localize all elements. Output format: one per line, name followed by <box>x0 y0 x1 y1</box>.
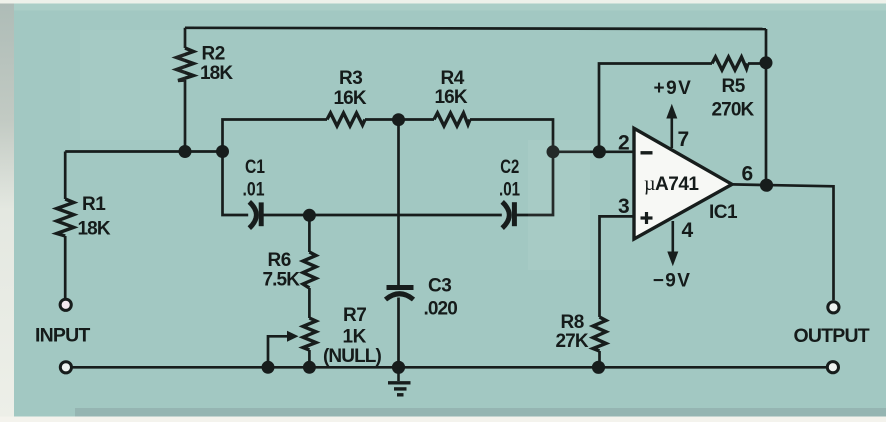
wire R6-R7 link <box>308 288 311 318</box>
svg-text:OUTPUT: OUTPUT <box>794 325 870 347</box>
svg-text:7.5K: 7.5K <box>263 270 301 291</box>
op-amp plus input mark <box>641 212 653 224</box>
node wiper ground <box>262 361 275 374</box>
ground <box>388 367 411 395</box>
svg-text:R2: R2 <box>202 44 225 65</box>
svg-text:18K: 18K <box>78 219 111 240</box>
svg-text:µA741: µA741 <box>644 173 699 195</box>
wire wiper arm <box>268 336 288 367</box>
svg-text:2: 2 <box>618 132 630 155</box>
terminal INPUT top <box>60 299 71 310</box>
wire upper T to R3 <box>223 120 328 152</box>
svg-text:R1: R1 <box>82 194 106 215</box>
resistor R2 <box>177 48 194 81</box>
svg-text:INPUT: INPUT <box>35 325 90 347</box>
node twin-T left <box>216 145 229 158</box>
svg-text:C1: C1 <box>245 157 265 178</box>
wire R2 leads <box>184 28 187 48</box>
wire C2 to node <box>517 152 554 215</box>
op-amp IC1 body <box>634 128 732 239</box>
wire lower T to C1 <box>223 152 249 216</box>
wire output rail vertical <box>765 29 768 185</box>
op-amp minus input mark <box>641 151 653 154</box>
capacitor C1 <box>249 202 261 228</box>
svg-text:16K: 16K <box>435 87 468 108</box>
resistor R8 <box>593 317 606 351</box>
svg-text:R7: R7 <box>343 305 366 326</box>
wiper arrowhead of R7 <box>287 331 299 342</box>
node twin-T right <box>547 145 560 158</box>
svg-text:6: 6 <box>742 163 754 186</box>
resistor R6 <box>303 252 316 288</box>
capacitor C3 <box>386 288 414 300</box>
svg-text:7: 7 <box>678 128 690 151</box>
svg-text:1K: 1K <box>343 327 367 348</box>
svg-text:+9V: +9V <box>654 78 693 99</box>
resistor R5 <box>712 57 748 70</box>
node R5 right <box>760 56 773 69</box>
svg-text:(NULL): (NULL) <box>323 346 381 367</box>
wire top feedback rail <box>185 28 766 29</box>
left edge strip <box>0 4 14 417</box>
node C3 ground <box>392 361 405 374</box>
node R8 ground <box>592 361 605 374</box>
svg-text:270K: 270K <box>712 100 755 121</box>
svg-text:27K: 27K <box>556 331 589 352</box>
wire ground rail <box>73 366 827 369</box>
svg-text:.01: .01 <box>243 179 265 200</box>
svg-text:R5: R5 <box>722 76 746 97</box>
svg-text:IC1: IC1 <box>709 202 738 223</box>
wire R5 branch <box>599 64 712 152</box>
wire R3-R4 mid <box>365 118 434 121</box>
node R2 bottom <box>179 145 192 158</box>
terminal OUTPUT bottom <box>827 362 838 373</box>
svg-text:C2: C2 <box>500 157 519 178</box>
resistor R1 <box>57 199 74 236</box>
wire pin2 line <box>553 150 635 153</box>
svg-text:R3: R3 <box>339 68 362 89</box>
svg-text:R8: R8 <box>561 312 584 333</box>
wire output to terminal <box>732 184 834 300</box>
wire center C3 branch <box>397 120 400 286</box>
svg-text:18K: 18K <box>200 63 233 84</box>
+9V supply arrow (pin 7) <box>666 104 677 148</box>
svg-text:−9V: −9V <box>653 271 692 292</box>
svg-text:3: 3 <box>618 195 630 218</box>
svg-text:4: 4 <box>682 219 694 242</box>
resistor R3 <box>327 113 365 126</box>
wire R8 bottom lead <box>598 351 601 367</box>
terminal OUTPUT top <box>828 302 839 313</box>
wire R1 branch <box>64 152 67 200</box>
capacitor C2 <box>502 202 514 228</box>
svg-text:C3: C3 <box>428 276 451 297</box>
potentiometer R7 <box>303 318 316 350</box>
svg-text:R6: R6 <box>268 250 291 271</box>
wire pin3 line <box>600 216 636 317</box>
top lighter scan band <box>14 4 886 11</box>
node pin2/R5 <box>593 145 606 158</box>
svg-text:.020: .020 <box>424 299 458 320</box>
-9V supply arrow (pin 4) <box>667 221 678 266</box>
svg-text:.01: .01 <box>499 179 520 200</box>
wire R7 bottom lead <box>308 350 311 367</box>
wire R4 to C2 corner <box>470 120 553 152</box>
wire R6 lead <box>308 215 311 252</box>
terminal INPUT bottom <box>60 362 71 373</box>
svg-text:16K: 16K <box>334 88 367 109</box>
node R3-R4 junction <box>392 113 405 126</box>
bottom darker band <box>75 408 886 417</box>
node R7 ground <box>303 361 316 374</box>
node output <box>760 179 773 192</box>
top white edge <box>0 0 886 4</box>
scan light patches (decorative) <box>528 140 590 270</box>
node C1-C2 junction <box>303 209 316 222</box>
wire node line y=151 <box>65 150 223 153</box>
svg-text:R4: R4 <box>441 68 465 89</box>
junction node dots <box>179 56 774 374</box>
wire C1 to C2 <box>264 214 502 217</box>
resistor R4 <box>434 113 470 126</box>
